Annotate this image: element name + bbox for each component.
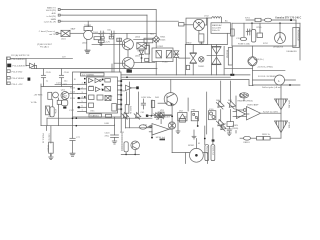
wire	[114, 62, 125, 64]
svg-text:MC: MC	[156, 119, 160, 121]
optocoupler box frame	[145, 46, 150, 55]
svg-text:D83: D83	[222, 124, 227, 126]
wire	[280, 110, 282, 122]
transistor Q603	[122, 57, 134, 69]
wire	[279, 23, 281, 32]
wire	[171, 106, 173, 153]
wire	[164, 114, 172, 116]
svg-text:POSISTOR: POSISTOR	[297, 30, 299, 41]
resistor R703	[257, 33, 263, 38]
wire	[204, 126, 206, 145]
svg-text:Q604: Q604	[135, 37, 141, 39]
node junction	[171, 115, 173, 117]
wire	[116, 32, 156, 34]
svg-text:R705: R705	[257, 27, 263, 29]
svg-text:R613: R613	[138, 51, 144, 53]
node junction	[125, 154, 127, 156]
arrow dashed	[121, 134, 123, 152]
svg-text:SAW: SAW	[71, 28, 76, 31]
svg-text:C41: C41	[141, 112, 146, 114]
svg-text:12V: 12V	[62, 56, 66, 58]
potentiometer VR801	[158, 112, 164, 118]
wire	[93, 32, 100, 34]
svg-text:SYN: SYN	[108, 96, 113, 98]
note box	[211, 23, 231, 34]
label	[11, 54, 30, 57]
svg-text:Yamaha BTY 170-146 C: Yamaha BTY 170-146 C	[275, 17, 302, 20]
svg-text:+115V B+ (P801): +115V B+ (P801)	[257, 66, 273, 68]
capacitor C101	[41, 69, 45, 84]
svg-text:PC817: PC817	[162, 62, 169, 64]
svg-text:M: M	[198, 143, 200, 145]
opto diode 2	[166, 51, 171, 58]
resistor R612	[98, 40, 104, 43]
svg-text:C105: C105	[46, 72, 52, 74]
capacitor C601	[99, 31, 105, 37]
wire	[111, 64, 113, 72]
wire	[69, 93, 78, 95]
connector J4	[56, 32, 58, 34]
svg-text:FB801: FB801	[244, 142, 251, 144]
block F1	[89, 87, 94, 91]
thermistor TH801	[199, 57, 204, 62]
diode D101	[26, 63, 37, 68]
svg-text:Vt 33k: Vt 33k	[31, 101, 38, 104]
wire	[58, 98, 60, 100]
svg-text:P10-2 AUDIO R: P10-2 AUDIO R	[13, 64, 28, 67]
svg-text:A: A	[278, 80, 280, 83]
diode D830	[219, 124, 226, 131]
wire	[235, 96, 237, 110]
wire	[62, 9, 156, 11]
IC pins right pads	[120, 80, 122, 110]
svg-text:FOCUS / SCREEN: FOCUS / SCREEN	[258, 76, 276, 78]
resistor chain R820	[257, 136, 271, 140]
wire	[41, 86, 73, 88]
optocoupler IC802	[152, 48, 173, 62]
svg-text:R61: R61	[150, 34, 155, 36]
svg-text:TU01: TU01	[93, 32, 99, 34]
wire bus A	[121, 74, 250, 76]
wire	[225, 67, 253, 69]
posistor PTC	[293, 28, 299, 48]
node junction	[279, 22, 281, 24]
ground	[70, 153, 75, 156]
wire	[177, 118, 179, 131]
wire	[148, 43, 150, 63]
wire	[175, 57, 177, 75]
wire	[226, 33, 228, 44]
op-amp U4	[236, 107, 261, 121]
capacitor C613	[117, 38, 122, 41]
svg-text:to Sd (P4): to Sd (P4)	[47, 15, 57, 18]
box below diac	[186, 65, 189, 69]
wire long	[125, 127, 152, 129]
svg-text:Vid IN (P3): Vid IN (P3)	[46, 10, 56, 12]
svg-text:AC: AC	[225, 20, 228, 23]
svg-text:R126: R126	[70, 98, 76, 100]
node junction	[197, 125, 199, 127]
wire	[246, 19, 255, 21]
svg-text:470u: 470u	[105, 136, 110, 138]
svg-text:D81: D81	[228, 100, 233, 102]
svg-text:L601: L601	[61, 39, 66, 41]
transistor Q201	[53, 92, 59, 98]
IC pins left	[78, 84, 87, 111]
svg-text:1u: 1u	[46, 81, 49, 83]
svg-text:+12V: +12V	[105, 41, 111, 43]
svg-text:(P805): (P805)	[232, 128, 239, 130]
svg-text:R123: R123	[70, 87, 76, 89]
diode D621	[174, 51, 179, 58]
ground	[112, 141, 117, 144]
node junction	[141, 57, 143, 59]
svg-text:OSC: OSC	[90, 111, 95, 113]
wire bus C	[121, 80, 253, 86]
connector P802	[191, 112, 198, 121]
triac D802	[207, 46, 223, 64]
wire	[223, 46, 225, 75]
svg-text:C701: C701	[236, 38, 242, 40]
svg-text:D409: D409	[165, 117, 171, 119]
wire	[134, 150, 136, 155]
wire	[216, 45, 218, 47]
wire	[138, 92, 140, 114]
wire	[210, 45, 212, 75]
svg-text:Q605: Q605	[135, 56, 141, 58]
wire bus B	[121, 76, 230, 78]
label	[61, 90, 66, 92]
wire	[252, 66, 254, 85]
svg-text:D605: D605	[160, 40, 166, 42]
svg-text:AUD: AUD	[52, 12, 57, 15]
svg-text:12V (A) SUPPLY IN: 12V (A) SUPPLY IN	[11, 54, 30, 57]
block F2	[105, 96, 111, 101]
block F5	[97, 95, 103, 100]
wire	[192, 45, 194, 53]
svg-text:R-OUT (to CRT): R-OUT (to CRT)	[263, 110, 278, 113]
svg-text:FUSE 3.15A: FUSE 3.15A	[238, 42, 250, 45]
ground	[192, 130, 196, 139]
ground	[176, 131, 180, 134]
svg-text:C808 (B+): C808 (B+)	[254, 59, 264, 61]
wire	[50, 126, 52, 143]
svg-text:IF: IF	[74, 79, 77, 81]
block B2	[105, 87, 111, 92]
wire	[220, 81, 222, 102]
wire	[100, 43, 102, 45]
ground pad	[160, 139, 166, 141]
node junction	[151, 115, 153, 117]
wire bottom long	[47, 117, 152, 119]
svg-text:switch B+ (P): switch B+ (P)	[44, 20, 57, 23]
resistor R611	[94, 37, 100, 40]
wire	[151, 100, 153, 116]
svg-text:P11 (A) in: P11 (A) in	[40, 46, 50, 49]
node junction	[204, 138, 206, 140]
wire	[124, 118, 126, 128]
capacitor C390	[70, 118, 75, 153]
node junction	[126, 76, 128, 78]
wire	[62, 20, 179, 22]
svg-text:VIDEO AMP: VIDEO AMP	[247, 104, 259, 107]
svg-text:IC802: IC802	[158, 46, 164, 48]
opto diode 1	[156, 51, 161, 58]
svg-text:SAND TO: SAND TO	[47, 7, 57, 10]
connector pin 2	[7, 64, 11, 68]
op-amp C	[96, 87, 101, 92]
svg-text:C805: C805	[199, 43, 205, 45]
wire	[187, 98, 189, 111]
svg-text:(P) AV SOCKET: (P) AV SOCKET	[37, 43, 53, 46]
op-amp U3	[233, 110, 249, 119]
wire	[41, 125, 115, 127]
resistor R620	[199, 34, 204, 42]
pad	[146, 115, 148, 117]
resistor R840	[205, 145, 209, 161]
wire	[292, 19, 296, 21]
wire	[121, 153, 139, 155]
IC U1	[87, 77, 118, 113]
motor M1	[186, 139, 208, 164]
node IN1 label	[46, 7, 56, 13]
wire	[113, 38, 115, 72]
wire	[134, 38, 153, 40]
ground	[227, 133, 231, 136]
resistor R201	[48, 92, 52, 99]
capacitor C701	[246, 29, 251, 35]
fuse F421	[139, 125, 149, 129]
wire	[25, 58, 27, 65]
filter FL1	[61, 30, 70, 36]
capacitor C401	[141, 99, 145, 109]
tuner box U601	[84, 27, 93, 40]
wire	[280, 85, 282, 99]
node IN4 label	[39, 30, 56, 36]
op-amp B	[95, 78, 101, 82]
resistor R203	[46, 106, 50, 115]
svg-text:Deflect yoke (+B out): Deflect yoke (+B out)	[262, 86, 282, 89]
svg-text:R820 1k: R820 1k	[262, 134, 271, 136]
svg-text:C127: C127	[69, 110, 75, 112]
wire	[220, 110, 222, 122]
fuse F702	[240, 37, 246, 40]
svg-text:SP801: SP801	[188, 145, 195, 147]
svg-text:+8V REG: +8V REG	[34, 94, 43, 96]
node junction	[134, 154, 136, 156]
svg-text:C410 100u: C410 100u	[141, 97, 152, 99]
diode bridge D620	[153, 36, 160, 43]
wire	[192, 63, 194, 75]
optocoupler IC803	[209, 111, 216, 120]
shield box degauss	[186, 18, 208, 44]
svg-text:ant 75: ant 75	[49, 33, 56, 36]
degauss coil	[275, 33, 286, 44]
svg-text:TH801: TH801	[198, 66, 205, 68]
node junction	[251, 22, 253, 24]
diode D613	[145, 58, 149, 61]
svg-text:S701: S701	[245, 17, 251, 19]
wire	[125, 113, 127, 118]
resistor R430	[180, 119, 186, 123]
resistor R406	[151, 101, 154, 108]
svg-text:P10-4 VIDEO: P10-4 VIDEO	[12, 78, 25, 80]
resistor R401	[125, 105, 129, 114]
svg-text:R44: R44	[155, 97, 160, 99]
wire	[172, 152, 185, 154]
wire top rail	[31, 68, 157, 70]
wire	[158, 102, 167, 104]
transistor Q102	[61, 92, 69, 100]
diode bridge D611	[137, 43, 147, 49]
wire	[243, 23, 245, 37]
label bottom	[89, 114, 102, 117]
diode D408	[153, 113, 160, 120]
resistor R711	[228, 48, 232, 66]
svg-text:HEATER (P803): HEATER (P803)	[238, 100, 253, 103]
wire	[197, 118, 199, 126]
wire rail	[232, 22, 300, 24]
wire	[270, 137, 281, 139]
connector pin 4	[7, 76, 10, 79]
capacitor C830	[227, 126, 231, 133]
wire	[299, 23, 301, 60]
wire	[129, 118, 131, 128]
wire	[148, 115, 172, 117]
wire vertical trunk	[155, 10, 157, 36]
svg-text:50Hz IN: 50Hz IN	[212, 30, 220, 32]
wire	[231, 46, 233, 75]
op-amp A	[89, 78, 94, 82]
pad	[136, 86, 139, 89]
capacitor C612	[109, 36, 113, 39]
resistor R701	[255, 18, 261, 21]
node junction	[72, 117, 74, 119]
wire	[206, 92, 208, 134]
wire	[280, 133, 282, 139]
pad	[28, 78, 31, 81]
wire	[104, 32, 110, 34]
svg-text:C440: C440	[104, 123, 110, 125]
wire	[40, 84, 42, 126]
wire	[229, 110, 231, 122]
wire	[92, 44, 120, 46]
block F4	[112, 104, 117, 112]
wire	[253, 84, 301, 86]
wire	[120, 43, 125, 45]
label	[232, 125, 239, 130]
diode D402	[133, 112, 140, 119]
wire	[46, 126, 48, 131]
wire	[127, 50, 129, 57]
wire	[140, 55, 142, 63]
ammeter A	[275, 75, 285, 85]
pad	[63, 106, 66, 108]
svg-text:C60: C60	[107, 30, 112, 32]
resistor R702	[231, 29, 235, 36]
wire	[46, 118, 48, 126]
connector J1	[58, 9, 62, 11]
connector J2	[58, 14, 62, 16]
block B1	[105, 79, 111, 83]
svg-text:TDA8361: TDA8361	[90, 115, 100, 118]
svg-text:DEGAUSS: DEGAUSS	[287, 50, 298, 53]
heater diode pair	[239, 93, 248, 101]
wire	[155, 43, 157, 48]
transistor Q801	[164, 93, 177, 106]
node junction	[230, 74, 234, 76]
resistor R390	[106, 114, 112, 117]
wire	[125, 152, 127, 155]
svg-text:R44: R44	[120, 132, 125, 134]
wire	[259, 23, 261, 33]
resistor R421 electrolytic	[124, 142, 128, 152]
capacitor C203 electrolytic	[50, 107, 54, 117]
wire	[43, 84, 45, 87]
svg-text:AMP: AMP	[89, 85, 94, 88]
capacitor C130	[62, 100, 68, 106]
resistor R619	[179, 23, 185, 26]
connector J3	[58, 20, 62, 22]
diode D409	[158, 113, 165, 124]
wire	[134, 62, 155, 64]
wire	[170, 80, 172, 93]
svg-text:F702: F702	[263, 43, 269, 45]
svg-text:C420: C420	[105, 133, 111, 135]
capacitor C102	[59, 69, 63, 84]
block F3	[89, 95, 95, 100]
wire	[114, 117, 116, 125]
svg-text:MAIN: MAIN	[51, 18, 57, 21]
diode D805	[215, 119, 224, 128]
svg-text:C106: C106	[64, 72, 70, 74]
block F6	[89, 103, 94, 108]
ground	[49, 153, 54, 159]
ground	[100, 37, 103, 46]
resistor R616	[144, 38, 153, 43]
wire	[253, 79, 275, 81]
op-amp U2	[126, 85, 137, 90]
wire	[251, 23, 253, 29]
resistor R202	[57, 100, 61, 104]
transistor Q420	[131, 141, 140, 150]
wire	[231, 23, 233, 46]
svg-text:R801: R801	[160, 37, 166, 39]
wire	[129, 82, 131, 105]
wire	[125, 92, 127, 105]
node junction	[76, 117, 78, 119]
pad column	[102, 79, 104, 91]
diac D801	[190, 53, 196, 64]
svg-text:R802: R802	[187, 43, 193, 45]
wire	[52, 99, 54, 107]
connector pin 1	[7, 57, 10, 60]
svg-text:Q02: Q02	[63, 96, 68, 98]
svg-text:VR300: VR300	[47, 145, 49, 152]
wire	[285, 79, 296, 81]
ground	[85, 50, 90, 53]
svg-text:TUNER: TUNER	[84, 25, 92, 27]
wire video out	[261, 112, 282, 114]
wire	[70, 32, 84, 34]
svg-text:R305 2.2k: R305 2.2k	[42, 134, 44, 144]
wire	[179, 57, 190, 59]
connector pin 5	[7, 82, 10, 85]
capacitor C702 electrolytic	[251, 30, 255, 43]
connector pin 3	[7, 70, 10, 73]
wire	[216, 65, 218, 75]
svg-text:CRT A51: CRT A51	[287, 100, 290, 109]
